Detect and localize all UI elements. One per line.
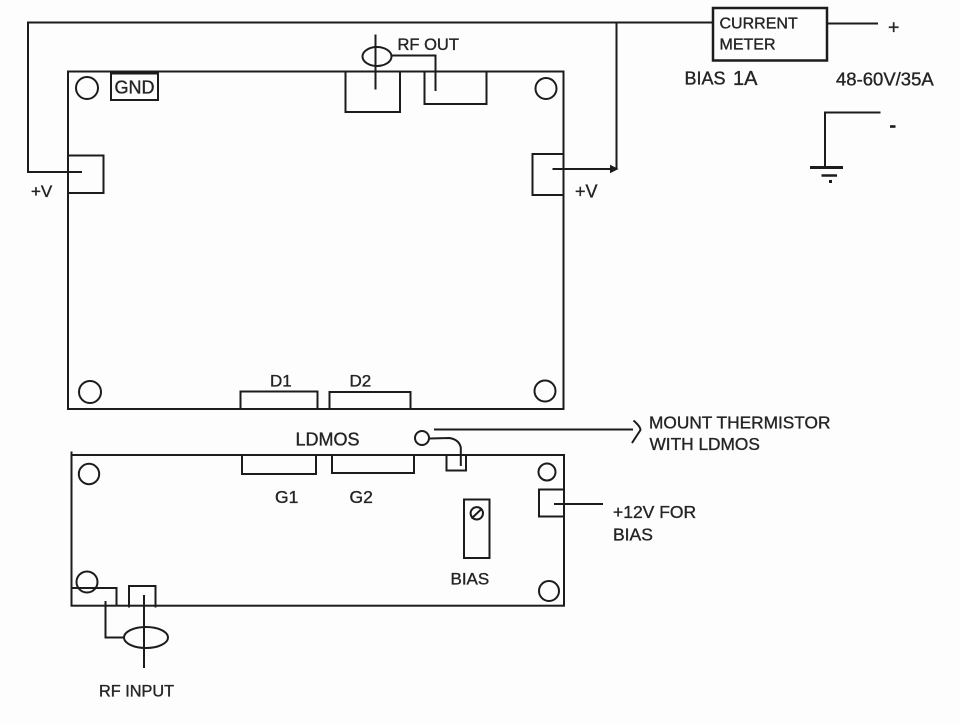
arrowhead right +V feed [610, 165, 619, 173]
wire right +V feed [553, 168, 613, 170]
bias potentiometer body [464, 500, 490, 559]
wire RF OUT to pad2 [391, 56, 436, 92]
svg-text:RF INPUT: RF INPUT [99, 683, 174, 701]
svg-text:METER: METER [720, 37, 776, 54]
svg-text:+V: +V [31, 182, 53, 201]
RF input pad 1 (notch) [72, 588, 117, 606]
wire meter to + terminal [827, 23, 878, 25]
wire RF input left [106, 601, 125, 638]
svg-text:MOUNT THERMISTOR: MOUNT THERMISTOR [649, 413, 830, 433]
svg-text:BIAS: BIAS [613, 525, 653, 545]
thermistor mount pad on board2 [447, 455, 467, 471]
connector RF INPUT stem [143, 595, 145, 668]
ground symbol [810, 166, 843, 169]
svg-text:CURRENT: CURRENT [720, 16, 798, 33]
arrowhead thermistor note [632, 421, 641, 444]
pad D1 [241, 392, 318, 410]
label - terminal [890, 125, 896, 128]
GND pad box [111, 74, 158, 101]
hole top-left board1 [76, 77, 98, 99]
svg-text:G2: G2 [350, 487, 373, 507]
+V pad right [533, 154, 564, 195]
svg-text:+V: +V [575, 182, 598, 202]
hole bottom-right board2 [539, 581, 559, 601]
wire board2 corner overshoot [71, 452, 73, 457]
board PA top (board 1) [68, 72, 564, 410]
hole top-right board2 [539, 464, 556, 481]
thermistor circle [415, 431, 429, 445]
arrow to thermistor note [434, 429, 633, 431]
RF OUT pad 1 [346, 72, 401, 113]
svg-text:WITH LDMOS: WITH LDMOS [650, 434, 760, 454]
connector RF OUT ellipse [363, 47, 392, 66]
wire +12V feed [554, 503, 603, 505]
svg-text:D2: D2 [350, 372, 372, 391]
svg-text:+: + [888, 17, 899, 39]
hole bottom-left board2 [77, 572, 98, 593]
connector RF INPUT ellipse [124, 627, 168, 648]
svg-text:BIAS: BIAS [451, 570, 490, 589]
svg-text:+12V FOR: +12V FOR [613, 502, 696, 522]
wire top supply bus [28, 22, 713, 24]
svg-text:G1: G1 [275, 487, 298, 507]
current meter box [713, 8, 827, 61]
hole bottom-left board1 [79, 381, 101, 403]
svg-text:48-60V/35A: 48-60V/35A [836, 69, 934, 90]
wire left +V drop [28, 22, 82, 173]
pad G2 [332, 455, 414, 473]
hole top-left board2 [79, 464, 99, 484]
svg-text:GND: GND [115, 78, 155, 98]
pad D2 [330, 392, 411, 409]
hole bottom-right board1 [535, 381, 556, 402]
wire negative terminal to ground [825, 113, 881, 167]
bias potentiometer screw [471, 507, 483, 519]
svg-text:RF OUT: RF OUT [398, 36, 459, 54]
svg-text:1A: 1A [733, 68, 758, 90]
svg-text:LDMOS: LDMOS [296, 430, 360, 450]
hole top-right board1 [536, 78, 557, 99]
+12V pad [539, 490, 564, 517]
RF OUT pad 2 [425, 72, 487, 105]
RF input pad 2 [129, 586, 156, 608]
svg-text:BIAS: BIAS [685, 69, 726, 89]
wire right +V riser [616, 23, 618, 170]
connector RF OUT stem [375, 35, 377, 90]
wire thermistor lead [430, 438, 461, 466]
+V pad left [68, 156, 104, 194]
svg-text:D1: D1 [270, 372, 292, 391]
board input (board 2) [72, 455, 565, 606]
pad G1 [242, 455, 316, 474]
